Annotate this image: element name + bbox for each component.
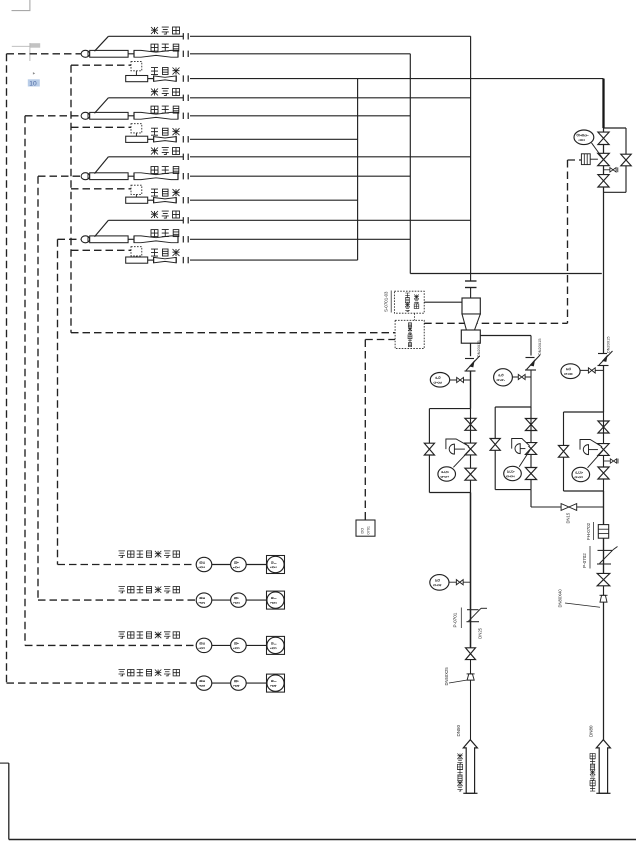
pipe to battery limit <box>470 680 472 740</box>
igniter cable to lance <box>424 301 462 303</box>
svg-text:101: 101 <box>198 566 206 568</box>
block valve upstream <box>465 418 476 430</box>
detector label B2 <box>151 89 180 96</box>
block valve downstream <box>525 468 536 480</box>
gauge root valve <box>449 580 471 585</box>
station main pipe <box>603 128 605 274</box>
igniter gun B1 <box>126 76 177 82</box>
signal line <box>212 644 231 646</box>
shutoff valve GYB-0701 <box>581 153 609 165</box>
pipe <box>470 371 472 409</box>
pressure gauge PG-0706 <box>430 373 449 388</box>
svg-text:0707: 0707 <box>496 379 506 381</box>
svg-text:101: 101 <box>270 566 278 568</box>
DN15 connecting valve <box>561 504 603 511</box>
gauge root valve <box>512 374 531 379</box>
FH-0702 label <box>586 522 594 540</box>
spec break DN20X15 <box>465 356 480 371</box>
instrument air inlet arrow <box>463 740 477 794</box>
row label 103 <box>119 632 180 638</box>
signal line <box>212 564 231 566</box>
block valve <box>597 573 610 585</box>
svg-text:0701: 0701 <box>440 476 450 478</box>
detection row dashed lead 101 <box>58 564 196 566</box>
pilot monitoring dashed line B2 <box>25 116 81 646</box>
igniter label B2 <box>151 128 180 135</box>
DN80 size label <box>589 725 594 737</box>
frame bottom border <box>9 839 636 841</box>
svg-text:DN20X15: DN20X15 <box>538 339 542 355</box>
igniter gas lines 2-4 to collector <box>190 139 358 260</box>
gray corner artifact <box>12 0 30 11</box>
lance outlet to middle line <box>480 336 531 356</box>
pipe to battery limit <box>603 602 605 740</box>
igniter label B4 <box>151 249 180 256</box>
sample point P-0702 <box>597 547 618 565</box>
spec break DN20X15 <box>525 355 540 370</box>
reducer label <box>558 589 601 608</box>
svg-text:DN50X25: DN50X25 <box>444 667 449 686</box>
detector label B4 <box>151 211 180 218</box>
line break ticks pilot B1 <box>183 51 188 57</box>
signal line <box>246 564 266 566</box>
igniter dashed feed B2 <box>71 126 131 128</box>
svg-text:0704: 0704 <box>432 584 442 586</box>
relay bubble BY-101 <box>231 557 247 571</box>
line break ticks igniter B4 <box>183 257 188 263</box>
detection row dashed lead 104 <box>7 682 196 684</box>
flame sensor bubble BE-102 <box>196 593 212 607</box>
DCS display BI-101 <box>267 556 285 574</box>
igniter dashed trunk <box>71 65 395 333</box>
bypass globe valve <box>558 445 568 457</box>
DN50 size label <box>456 724 461 736</box>
line break ticks igniter B2 <box>183 136 188 142</box>
pilot monitoring dashed line B4 <box>58 239 82 564</box>
spec break DN20X15 <box>598 351 613 366</box>
instrument bubble PCV-0703 <box>572 451 603 482</box>
pressure gauge PG-0708 <box>561 364 580 379</box>
drain valve <box>604 167 618 172</box>
DN15 label <box>566 512 571 523</box>
station bypass <box>604 128 627 192</box>
igniter gas line 1 to fuel main <box>190 78 604 80</box>
fuel gas riser <box>603 274 605 354</box>
igniter label B3 <box>151 189 180 196</box>
air source label <box>457 754 462 792</box>
svg-text:DN15: DN15 <box>566 512 571 523</box>
igniter solenoid box B2 <box>131 124 142 137</box>
pipe <box>530 370 532 407</box>
local ignition button box <box>395 320 424 348</box>
svg-text:S-0701-03: S-0701-03 <box>384 291 389 312</box>
blue page number 10 <box>28 79 40 87</box>
igniter lance vessel <box>461 298 480 343</box>
svg-text:103: 103 <box>233 647 241 649</box>
svg-text:102: 102 <box>198 602 206 604</box>
line break ticks pilot B4 <box>183 236 188 242</box>
burner nozzle B1 <box>81 50 128 57</box>
svg-text:DN80X40: DN80X40 <box>558 589 563 608</box>
signal line <box>246 682 266 684</box>
line break ticks detector B4 <box>183 217 188 223</box>
block valve upstream <box>598 421 609 433</box>
pipe <box>470 493 472 649</box>
reducer label <box>444 667 467 686</box>
pilot monitoring dashed line B1 <box>7 54 82 683</box>
furnace wall break <box>465 274 477 299</box>
PCV station 0703 bypass <box>564 412 604 491</box>
svg-text:DN20X15: DN20X15 <box>607 337 611 353</box>
sample point P-0701 <box>467 608 488 621</box>
pipe <box>603 538 605 573</box>
line break ticks pilot B3 <box>183 173 188 179</box>
flame detector tap line B2 <box>95 98 184 113</box>
block valve downstream <box>465 468 476 480</box>
relay bubble BY-104 <box>231 676 247 690</box>
line break ticks igniter B1 <box>183 75 188 81</box>
DO output box <box>356 520 375 536</box>
flame detector tap line B3 <box>95 157 184 174</box>
self-regulating valve PCV-0701 <box>446 439 476 455</box>
svg-text:102: 102 <box>233 602 241 604</box>
pilot collector pipe <box>409 54 411 274</box>
igniter dashed feed B3 <box>71 188 131 190</box>
mid line drop <box>531 490 561 507</box>
line break ticks detector B3 <box>183 154 188 160</box>
row label 104 <box>119 670 180 676</box>
pilot label B2 <box>151 106 179 113</box>
svg-text:DO: DO <box>361 528 365 534</box>
block valve <box>466 648 476 660</box>
line break ticks pilot B2 <box>183 113 188 119</box>
fuel gas top header <box>602 79 604 128</box>
reducer DN80x40 <box>600 595 608 602</box>
pipe <box>603 586 605 596</box>
svg-text:P-0701: P-0701 <box>453 612 458 627</box>
signal line <box>246 644 266 646</box>
svg-text:0706: 0706 <box>433 382 443 384</box>
detection row dashed lead 103 <box>25 644 196 646</box>
pipe <box>603 366 605 413</box>
signal line <box>246 599 266 601</box>
gauge root valve <box>580 368 603 373</box>
svg-text:103: 103 <box>198 647 206 649</box>
flame sensor bubble BE-104 <box>196 676 212 690</box>
svg-text:0702: 0702 <box>506 475 516 477</box>
detector label B1 <box>151 27 180 34</box>
igniter dashed feed B1 <box>71 64 131 66</box>
dashed from control valve to button box <box>424 160 581 323</box>
self-regulating valve PCV-0702 <box>512 439 537 455</box>
bypass globe valve <box>424 443 434 455</box>
igniter label B1 <box>151 68 180 75</box>
pressure gauge PG-0707 <box>494 369 513 386</box>
high-energy igniter box <box>394 291 424 313</box>
svg-text:DN80: DN80 <box>589 725 594 737</box>
dotted link between boxes <box>414 313 416 320</box>
pilot header lines to collector <box>190 54 410 240</box>
pilot burner venturi B1 <box>128 50 178 57</box>
size label DN20X15 <box>538 339 542 355</box>
detector label B3 <box>151 148 180 155</box>
line break ticks detector B1 <box>183 33 188 39</box>
pilot monitoring dashed line B3 <box>38 176 81 600</box>
igniter solenoid box B4 <box>131 247 142 257</box>
igniter solenoid box B1 <box>131 62 142 76</box>
svg-text:191: 191 <box>578 139 586 141</box>
flame detector tap line B4 <box>95 220 184 236</box>
svg-text:DN25: DN25 <box>478 627 483 638</box>
pilot label B4 <box>151 230 179 237</box>
frame left border <box>0 763 9 839</box>
block valve downstream <box>598 175 609 187</box>
gray cursor arrow <box>33 72 35 75</box>
signal line <box>212 599 231 601</box>
signal line <box>212 682 231 684</box>
row label 102 <box>119 587 180 593</box>
svg-text:DN20X15: DN20X15 <box>477 341 481 357</box>
burner nozzle B3 <box>81 173 128 180</box>
pipe <box>603 412 605 491</box>
DN25 label <box>478 627 483 638</box>
block valve upstream <box>598 132 609 144</box>
burner nozzle B2 <box>81 112 128 119</box>
size label DN20X15 <box>477 341 481 357</box>
svg-text:10: 10 <box>29 81 37 88</box>
DCS display BI-102 <box>267 591 285 609</box>
block valve downstream <box>598 467 609 479</box>
fuel pipe <box>603 491 605 525</box>
PCV station 0702 bypass <box>495 407 531 490</box>
DCS display BI-104 <box>267 674 285 692</box>
dashed to DO box <box>365 340 395 521</box>
lance drop pipe <box>470 343 472 356</box>
svg-text:P-0702: P-0702 <box>582 553 587 568</box>
reducer DN50x25 <box>467 674 475 680</box>
PCV station 0701 bypass <box>429 409 470 493</box>
igniter solenoid box B3 <box>131 185 142 197</box>
P-0701 label <box>453 608 462 629</box>
pilot burner venturi B4 <box>128 236 178 243</box>
self-regulating valve PCV-0703 <box>580 440 609 456</box>
igniter dashed feed B4 <box>71 249 131 251</box>
fuel gas inlet arrow <box>596 740 610 794</box>
relay bubble BY-103 <box>231 638 247 652</box>
svg-text:0701: 0701 <box>367 526 371 534</box>
svg-text:101: 101 <box>233 566 241 568</box>
flame sensor bubble BE-101 <box>196 557 212 571</box>
detection row dashed lead 102 <box>38 599 196 601</box>
svg-text:FH-0702: FH-0702 <box>586 522 591 540</box>
solenoid instrument bubble <box>574 130 604 160</box>
svg-text:0703: 0703 <box>574 476 584 478</box>
pilot label B1 <box>151 44 179 51</box>
svg-text:104: 104 <box>270 685 278 687</box>
pilot gas supply header <box>410 273 602 275</box>
igniter gun B3 <box>126 197 177 203</box>
pipe <box>530 407 532 490</box>
line break ticks detector B2 <box>183 95 188 101</box>
relay bubble BY-102 <box>231 593 247 607</box>
tag S-0701-03 <box>384 291 392 313</box>
row label 101 <box>119 551 180 557</box>
block valve upstream <box>525 419 536 431</box>
size label DN20X15 <box>607 337 611 353</box>
svg-text:DN50: DN50 <box>456 724 461 736</box>
pressure gauge PG-0704 <box>430 575 449 591</box>
igniter collector pipe <box>357 79 359 261</box>
line break ticks igniter B3 <box>183 197 188 203</box>
igniter gun B2 <box>126 136 177 142</box>
svg-text:104: 104 <box>233 685 241 687</box>
svg-text:0708: 0708 <box>564 373 574 375</box>
detector collector pipe <box>470 36 472 273</box>
bypass globe valve <box>490 439 500 451</box>
DCS display BI-103 <box>267 636 285 654</box>
drain valve <box>604 459 619 464</box>
gauge root valve <box>450 377 471 382</box>
pilot burner venturi B3 <box>128 173 178 180</box>
instrument bubble PCV-0702 <box>504 450 531 481</box>
P-0702 label <box>582 546 590 569</box>
pipe <box>470 660 472 674</box>
burner nozzle B4 <box>81 236 128 243</box>
flame sensor bubble BE-103 <box>196 638 212 652</box>
pilot burner venturi B2 <box>128 112 178 119</box>
flame arrestor FH-0702 <box>598 525 608 539</box>
igniter gun B4 <box>126 257 177 263</box>
fuel gas source label <box>590 754 595 792</box>
pipe <box>470 409 472 493</box>
svg-text:104: 104 <box>198 685 206 687</box>
pilot label B3 <box>151 167 179 174</box>
detector header lines to collector <box>190 36 471 220</box>
instrument bubble PCV-0701 <box>438 450 470 481</box>
gray toolbar mark <box>12 43 40 61</box>
bypass globe valve <box>621 154 631 166</box>
flame detector tap line B1 <box>95 36 184 51</box>
svg-text:103: 103 <box>270 647 278 649</box>
svg-text:102: 102 <box>270 602 278 604</box>
